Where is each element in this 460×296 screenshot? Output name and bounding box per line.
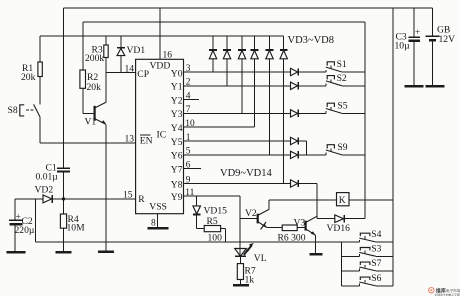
svg-text:VD9~VD14: VD9~VD14 xyxy=(220,168,273,179)
svg-text:100: 100 xyxy=(208,233,223,244)
wire V1 emitter down to ground rail xyxy=(105,124,107,242)
resistor R7 xyxy=(237,256,256,285)
svg-text:14: 14 xyxy=(125,64,135,75)
watermark logo xyxy=(429,288,460,296)
svg-text:8: 8 xyxy=(151,218,156,229)
svg-text:3: 3 xyxy=(186,64,191,74)
diode VD15 xyxy=(193,196,227,228)
svg-text:Y2: Y2 xyxy=(171,95,183,106)
svg-text:10µ: 10µ xyxy=(395,41,411,52)
svg-text:220µ: 220µ xyxy=(15,225,35,236)
svg-text:S7: S7 xyxy=(371,258,381,269)
svg-text:1k: 1k xyxy=(245,275,255,286)
diode VD3 on Y0 riser xyxy=(209,36,217,72)
resistor R3 xyxy=(85,36,108,64)
label VD3~VD8 xyxy=(288,35,335,46)
svg-text:Y3: Y3 xyxy=(171,109,183,120)
wire Y5 jog down to S9 line xyxy=(306,141,308,155)
svg-text:+: + xyxy=(415,28,420,38)
svg-text:K: K xyxy=(339,195,346,206)
svg-text:4: 4 xyxy=(186,91,191,101)
diode VD13 on Y6 row xyxy=(291,151,327,158)
wire left outer vertical xyxy=(63,8,65,199)
wire CP pin 14 xyxy=(106,72,136,74)
svg-text:+: + xyxy=(16,213,21,223)
ground C2 xyxy=(6,251,25,254)
ground R7 xyxy=(233,284,249,287)
svg-text:20k: 20k xyxy=(21,72,36,83)
pin Y2 stub (pin 4) xyxy=(171,91,199,106)
svg-text:V3: V3 xyxy=(294,218,306,229)
resistor R1 xyxy=(21,62,42,83)
wire switch bus vertical xyxy=(364,22,366,219)
diode VD4 on Y1 riser xyxy=(223,36,231,86)
transistor V2 xyxy=(240,200,282,229)
svg-text:Y0: Y0 xyxy=(171,68,183,79)
diode VD1 xyxy=(117,36,145,72)
ground GB xyxy=(426,85,445,88)
switch S2 xyxy=(326,73,365,86)
diode VD2 xyxy=(35,185,54,203)
wire R3 to CP node and V1 collector xyxy=(105,58,107,103)
pin Y1 line (pin 2) xyxy=(171,78,291,93)
svg-text:V1: V1 xyxy=(85,117,97,128)
pin 8 VSS ground xyxy=(148,214,169,229)
pin Y5 line (pin 1) xyxy=(171,133,291,148)
svg-text:V2: V2 xyxy=(245,208,257,219)
wire R pin 15 line xyxy=(15,198,135,200)
wire Y9 vertical to VL xyxy=(239,196,241,256)
svg-text:VSS: VSS xyxy=(149,201,167,212)
svg-text:R5: R5 xyxy=(207,216,218,227)
svg-text:6: 6 xyxy=(186,160,191,170)
ground R4 xyxy=(56,251,72,254)
svg-text:2: 2 xyxy=(186,78,191,88)
pin label 15 xyxy=(123,190,133,201)
svg-text:S3: S3 xyxy=(371,243,381,254)
svg-text:S5: S5 xyxy=(337,101,347,112)
svg-text:12V: 12V xyxy=(439,34,456,45)
diode VD6 on Y4 riser xyxy=(251,36,259,127)
wire R2 supply branch xyxy=(82,22,84,70)
svg-text:Y9: Y9 xyxy=(171,192,183,203)
pin Y9 line (pin 11) xyxy=(171,188,240,203)
switch S8 xyxy=(8,104,40,142)
svg-text:CP: CP xyxy=(137,69,149,80)
svg-text:15: 15 xyxy=(123,190,133,201)
svg-text:Y6: Y6 xyxy=(171,151,183,162)
switch S9 xyxy=(326,142,365,155)
diode VD12 on Y5 row xyxy=(291,137,307,144)
svg-text:11: 11 xyxy=(185,188,194,198)
wire R2 to V1 base xyxy=(83,88,95,113)
switch S5 xyxy=(326,101,365,114)
pin Y0 line (pin 3) xyxy=(171,64,291,80)
svg-text:S1: S1 xyxy=(337,59,347,70)
svg-text:7: 7 xyxy=(186,105,191,115)
svg-text:10: 10 xyxy=(185,119,195,129)
svg-text:VDD: VDD xyxy=(150,61,171,72)
pin Y7 stub (pin 6) xyxy=(171,160,201,175)
svg-text:VD16: VD16 xyxy=(327,223,351,234)
LED VL xyxy=(235,243,267,264)
diode VD5 on Y3 riser xyxy=(238,36,246,113)
switch S7 row xyxy=(341,258,393,271)
pin label 14 xyxy=(125,64,135,75)
pin Y3 line (pin 7) xyxy=(171,105,291,120)
node junction dot at VD2 / C1 / R4 xyxy=(62,197,65,200)
wire R1 to S8 xyxy=(39,77,41,105)
svg-text:Y8: Y8 xyxy=(171,179,183,190)
svg-text:VD2: VD2 xyxy=(35,185,54,196)
svg-text:S6: S6 xyxy=(371,273,381,284)
battery GB xyxy=(426,8,455,86)
switch S3 row xyxy=(341,243,393,256)
capacitor C2 xyxy=(9,199,35,252)
resistor R2 xyxy=(80,70,101,93)
svg-text:200k: 200k xyxy=(85,53,104,64)
diode VD14 on Y8 row xyxy=(291,180,317,187)
svg-text:9: 9 xyxy=(186,175,191,185)
svg-text:Y5: Y5 xyxy=(171,137,183,148)
svg-text:VL: VL xyxy=(254,253,267,264)
wire diode bus rail xyxy=(40,35,284,37)
pin label 13 xyxy=(125,134,135,145)
wire second rail xyxy=(83,21,365,23)
svg-text:10M: 10M xyxy=(67,223,86,234)
svg-text:0.01µ: 0.01µ xyxy=(36,172,59,183)
diode VD10 on Y1 row xyxy=(291,82,327,89)
wire lower switch group left bus xyxy=(340,242,342,286)
svg-text:S8: S8 xyxy=(8,105,18,116)
svg-text:R: R xyxy=(138,194,145,205)
capacitor C1 xyxy=(36,163,70,183)
transistor V1 xyxy=(85,102,107,127)
svg-text:EN: EN xyxy=(140,135,153,146)
switch S6 row xyxy=(341,273,393,286)
svg-text:S4: S4 xyxy=(371,229,381,240)
svg-text:Y4: Y4 xyxy=(171,123,183,134)
wire V3 emitter to ground xyxy=(310,235,323,254)
svg-text:VD15: VD15 xyxy=(204,206,228,217)
svg-text:VD1: VD1 xyxy=(127,45,146,56)
resistor R4 xyxy=(60,199,85,252)
svg-text:Y7: Y7 xyxy=(171,164,183,175)
svg-text:S9: S9 xyxy=(337,142,347,153)
ground C3 xyxy=(405,85,424,88)
switch S4 on ground rail row xyxy=(359,229,393,242)
svg-text:5: 5 xyxy=(186,147,191,157)
svg-text:S2: S2 xyxy=(337,73,347,84)
svg-text:R6 300: R6 300 xyxy=(278,233,306,244)
resistor R6 xyxy=(278,225,306,244)
svg-text:IC: IC xyxy=(157,130,167,141)
svg-text:VD3~VD8: VD3~VD8 xyxy=(288,35,335,46)
capacitor C3 xyxy=(395,8,421,86)
wire Y8 drop to relay drive node xyxy=(316,184,318,219)
IC box xyxy=(136,59,184,213)
label VD9~VD14 xyxy=(220,168,273,179)
pin Y4 line (pin 10) xyxy=(171,119,255,134)
svg-text:20k: 20k xyxy=(87,82,102,93)
svg-text:13: 13 xyxy=(125,134,135,145)
ground stub mid xyxy=(98,242,114,252)
diode VD11 on Y3 row xyxy=(291,110,327,117)
diode VD7 on Y6 riser xyxy=(266,36,274,155)
resistor R5 xyxy=(197,216,226,243)
wire right power vertical xyxy=(392,8,394,286)
transistor V3 xyxy=(294,216,317,235)
wire S8 to EN pin 13 xyxy=(40,142,136,144)
wire R1 branch xyxy=(39,36,41,62)
wire top supply rail xyxy=(64,7,433,9)
ground rail bottom xyxy=(35,199,359,242)
pin label 16 and VDD stub xyxy=(160,8,172,61)
diode VD8 on bus end riser to Y8 xyxy=(280,36,288,183)
svg-text:Y1: Y1 xyxy=(171,82,183,93)
svg-text:1: 1 xyxy=(186,133,191,143)
relay K xyxy=(269,193,393,206)
diode VD16 xyxy=(317,215,365,234)
diode VD9 on Y0 row xyxy=(291,68,327,75)
svg-text:16: 16 xyxy=(163,50,173,61)
pin Y6 line (pin 5) xyxy=(171,147,291,162)
switch S1 xyxy=(326,59,365,72)
pin Y8 line (pin 9) xyxy=(171,175,291,190)
